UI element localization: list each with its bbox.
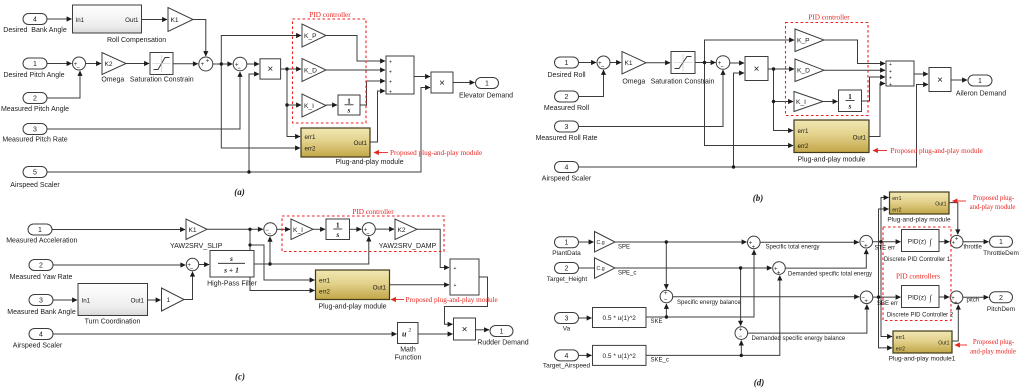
svg-text:Out1: Out1 <box>125 17 139 24</box>
svg-text:ThrottleDem: ThrottleDem <box>983 250 1019 257</box>
svg-text:C.g: C.g <box>597 266 605 272</box>
svg-text:C.g: C.g <box>597 240 605 246</box>
svg-text:3: 3 <box>565 124 569 131</box>
svg-text:1: 1 <box>167 297 171 304</box>
svg-text:err1: err1 <box>798 128 810 135</box>
svg-text:Desired Pitch Angle: Desired Pitch Angle <box>3 72 64 79</box>
svg-text:Specific energy balance: Specific energy balance <box>677 300 741 306</box>
svg-text:Discrete PID Controller 1: Discrete PID Controller 1 <box>884 257 951 263</box>
svg-text:1: 1 <box>999 239 1003 246</box>
svg-text:K_D: K_D <box>304 68 317 75</box>
svg-text:2: 2 <box>565 266 569 273</box>
svg-text:−: − <box>76 66 80 72</box>
svg-text:2: 2 <box>409 328 412 334</box>
svg-text:Out1: Out1 <box>935 201 946 207</box>
svg-text:Proposed plug-: Proposed plug- <box>973 339 1015 346</box>
svg-text:+: + <box>889 82 892 88</box>
svg-text:+: + <box>864 299 868 305</box>
svg-text:err1: err1 <box>305 134 317 141</box>
svg-text:−: − <box>366 231 370 237</box>
svg-text:2: 2 <box>33 96 37 103</box>
svg-text:×: × <box>462 325 468 336</box>
svg-text:1: 1 <box>565 240 569 247</box>
svg-text:Target_Height: Target_Height <box>547 276 588 283</box>
svg-text:×: × <box>267 64 273 75</box>
svg-text:+: + <box>864 244 868 250</box>
svg-text:In1: In1 <box>76 17 85 24</box>
svg-text:2: 2 <box>39 263 43 270</box>
svg-text:STE err: STE err <box>875 246 896 252</box>
svg-text:×: × <box>937 75 943 86</box>
svg-text:×: × <box>439 78 445 89</box>
svg-text:+: + <box>389 59 392 65</box>
svg-text:+: + <box>206 58 210 64</box>
svg-text:−: − <box>739 334 743 340</box>
svg-text:5: 5 <box>33 170 37 177</box>
svg-text:Elevator Demand: Elevator Demand <box>459 93 513 100</box>
svg-text:s: s <box>347 106 351 115</box>
svg-text:and-play module: and-play module <box>970 204 1016 211</box>
svg-text:Demanded specific energy balan: Demanded specific energy balance <box>752 336 846 342</box>
svg-text:2: 2 <box>565 94 569 101</box>
svg-text:SPE: SPE <box>618 245 630 251</box>
svg-text:Saturation Constrain: Saturation Constrain <box>130 77 194 84</box>
svg-text:PID controllers: PID controllers <box>896 273 940 281</box>
svg-text:0.5 * u(1)^2: 0.5 * u(1)^2 <box>602 353 636 360</box>
svg-text:Demanded specific total energy: Demanded specific total energy <box>788 272 872 278</box>
svg-text:Omega: Omega <box>622 79 645 86</box>
svg-text:SBE err: SBE err <box>877 301 898 307</box>
svg-text:K1: K1 <box>171 17 179 24</box>
svg-text:K_D: K_D <box>797 68 810 75</box>
svg-text:Target_Airspeed: Target_Airspeed <box>543 363 591 370</box>
svg-text:Proposed plug-and-play module: Proposed plug-and-play module <box>390 149 482 157</box>
svg-text:err2: err2 <box>319 288 331 295</box>
svg-text:+: + <box>777 271 781 277</box>
svg-text:3: 3 <box>33 127 37 134</box>
svg-text:K_P: K_P <box>304 33 317 40</box>
svg-text:K_I: K_I <box>796 99 806 106</box>
svg-text:Airspeed Scaler: Airspeed Scaler <box>10 182 60 189</box>
svg-text:Rudder Demand: Rudder Demand <box>477 340 528 347</box>
svg-text:+: + <box>752 245 756 251</box>
svg-text:Turn Coordination: Turn Coordination <box>85 319 141 326</box>
svg-text:K2: K2 <box>105 61 113 68</box>
svg-text:err1: err1 <box>892 196 901 202</box>
svg-text:err2: err2 <box>892 208 901 214</box>
svg-text:(a): (a) <box>234 187 245 197</box>
svg-text:+: + <box>739 328 743 334</box>
svg-text:+: + <box>201 62 205 68</box>
svg-text:4: 4 <box>565 353 569 360</box>
svg-text:1: 1 <box>485 81 489 88</box>
svg-text:1: 1 <box>848 92 852 101</box>
svg-text:Measured Bank Angle: Measured Bank Angle <box>7 309 76 316</box>
svg-text:−: − <box>237 66 241 72</box>
svg-text:PlantData: PlantData <box>552 250 581 257</box>
svg-text:Function: Function <box>395 355 422 362</box>
svg-text:Measured Yaw Rate: Measured Yaw Rate <box>10 274 73 281</box>
svg-text:−: − <box>720 65 724 71</box>
svg-text:Discrete PID Controller 2: Discrete PID Controller 2 <box>887 312 954 318</box>
svg-text:+: + <box>889 69 892 75</box>
svg-text:Out1: Out1 <box>131 298 145 305</box>
svg-text:+: + <box>454 266 457 272</box>
svg-text:−: − <box>664 298 668 304</box>
svg-text:Plug-and-play module: Plug-and-play module <box>887 217 951 224</box>
svg-text:Proposed plug-and-play module: Proposed plug-and-play module <box>891 147 983 155</box>
svg-text:K_P: K_P <box>797 38 810 45</box>
svg-text:err2: err2 <box>798 143 810 150</box>
svg-text:SPE_c: SPE_c <box>618 271 636 277</box>
svg-text:Va: Va <box>563 326 571 333</box>
svg-text:1: 1 <box>33 61 37 68</box>
svg-text:Measured Roll: Measured Roll <box>544 105 590 112</box>
svg-text:Measured Pitch Angle: Measured Pitch Angle <box>1 106 69 113</box>
svg-text:Measured Roll Rate: Measured Roll Rate <box>536 135 598 142</box>
svg-text:u: u <box>402 330 407 339</box>
svg-text:s: s <box>848 102 852 111</box>
svg-text:Plug-and-play module: Plug-and-play module <box>318 304 386 311</box>
svg-text:err2: err2 <box>896 347 905 353</box>
svg-text:Saturation Constrain: Saturation Constrain <box>651 79 715 86</box>
svg-text:0.5 * u(1)^2: 0.5 * u(1)^2 <box>602 315 636 322</box>
svg-text:K_I: K_I <box>293 227 303 234</box>
svg-text:Math: Math <box>400 347 416 354</box>
svg-text:pitch: pitch <box>967 298 980 304</box>
svg-text:+: + <box>954 300 958 306</box>
svg-text:Measured Acceleration: Measured Acceleration <box>6 238 77 245</box>
svg-text:1: 1 <box>336 221 340 230</box>
svg-text:err1: err1 <box>319 278 331 285</box>
svg-text:(b): (b) <box>753 193 764 203</box>
svg-text:K1: K1 <box>625 60 633 67</box>
svg-text:High-Pass Filter: High-Pass Filter <box>207 281 257 288</box>
svg-text:K2: K2 <box>398 227 406 234</box>
svg-text:1: 1 <box>38 227 42 234</box>
svg-text:Plug-and-play module1: Plug-and-play module1 <box>889 356 956 363</box>
svg-text:Out1: Out1 <box>853 134 867 141</box>
svg-text:+: + <box>889 62 892 68</box>
svg-text:+: + <box>389 69 392 75</box>
svg-text:(c): (c) <box>235 372 245 382</box>
svg-text:×: × <box>754 64 760 75</box>
svg-text:PID controller: PID controller <box>808 14 850 22</box>
svg-text:Airspeed Scaler: Airspeed Scaler <box>542 176 592 183</box>
svg-text:Desired Bank Angle: Desired Bank Angle <box>3 27 67 34</box>
svg-text:err2: err2 <box>305 146 317 153</box>
svg-text:YAW2SRV_SLIP: YAW2SRV_SLIP <box>170 243 223 250</box>
svg-text:Omega: Omega <box>101 77 124 84</box>
svg-text:PID controller: PID controller <box>309 11 351 19</box>
svg-text:Out1: Out1 <box>938 340 949 346</box>
svg-text:4: 4 <box>565 165 569 172</box>
svg-text:In1: In1 <box>82 298 91 305</box>
svg-text:SKE_c: SKE_c <box>651 358 669 364</box>
svg-text:s: s <box>229 254 233 263</box>
svg-text:throttle: throttle <box>964 245 983 251</box>
svg-text:K_I: K_I <box>304 103 314 110</box>
svg-text:+: + <box>664 291 668 297</box>
svg-text:Measured Pitch Rate: Measured Pitch Rate <box>2 137 67 144</box>
svg-text:4: 4 <box>39 332 43 339</box>
svg-text:PID controller: PID controller <box>352 208 394 216</box>
svg-text:1: 1 <box>500 329 504 336</box>
svg-text:s + 1: s + 1 <box>223 266 239 275</box>
svg-text:+: + <box>389 79 392 85</box>
svg-text:1: 1 <box>978 78 982 85</box>
svg-text:Out1: Out1 <box>354 140 368 147</box>
svg-text:and-play module: and-play module <box>970 349 1016 356</box>
svg-text:Plug-and-play module: Plug-and-play module <box>336 159 404 166</box>
svg-text:(d): (d) <box>754 378 765 388</box>
svg-text:s: s <box>335 230 339 239</box>
svg-text:Roll Compensation: Roll Compensation <box>107 37 166 44</box>
svg-text:−: − <box>268 232 272 238</box>
svg-text:+: + <box>454 283 457 289</box>
svg-text:2: 2 <box>999 295 1003 302</box>
svg-text:Proposed plug-and-play module: Proposed plug-and-play module <box>406 296 498 304</box>
svg-text:PID(z): PID(z) <box>908 239 926 246</box>
svg-text:K1: K1 <box>189 227 197 234</box>
svg-text:Plug-and-play module: Plug-and-play module <box>797 157 865 164</box>
svg-text:Airspeed Scaler: Airspeed Scaler <box>13 343 63 350</box>
svg-text:1: 1 <box>565 60 569 67</box>
svg-text:Specific total energy: Specific total energy <box>766 245 820 251</box>
svg-text:1: 1 <box>347 97 351 106</box>
svg-text:Out1: Out1 <box>373 284 387 291</box>
svg-text:PID(z): PID(z) <box>908 295 926 302</box>
svg-text:4: 4 <box>33 17 37 24</box>
svg-text:Aileron Demand: Aileron Demand <box>956 91 1006 98</box>
svg-text:PitchDem: PitchDem <box>987 306 1015 313</box>
svg-text:+: + <box>389 89 392 95</box>
svg-text:Proposed plug-: Proposed plug- <box>973 195 1015 202</box>
svg-text:err1: err1 <box>896 335 905 341</box>
svg-text:−: − <box>190 267 194 273</box>
svg-text:−: − <box>601 65 605 71</box>
svg-text:SKE: SKE <box>651 319 663 325</box>
svg-text:3: 3 <box>39 298 43 305</box>
svg-text:Desired Roll: Desired Roll <box>547 72 586 79</box>
svg-text:3: 3 <box>565 316 569 323</box>
svg-text:+: + <box>955 237 959 243</box>
svg-text:+: + <box>889 75 892 81</box>
svg-text:YAW2SRV_DAMP: YAW2SRV_DAMP <box>379 243 437 250</box>
